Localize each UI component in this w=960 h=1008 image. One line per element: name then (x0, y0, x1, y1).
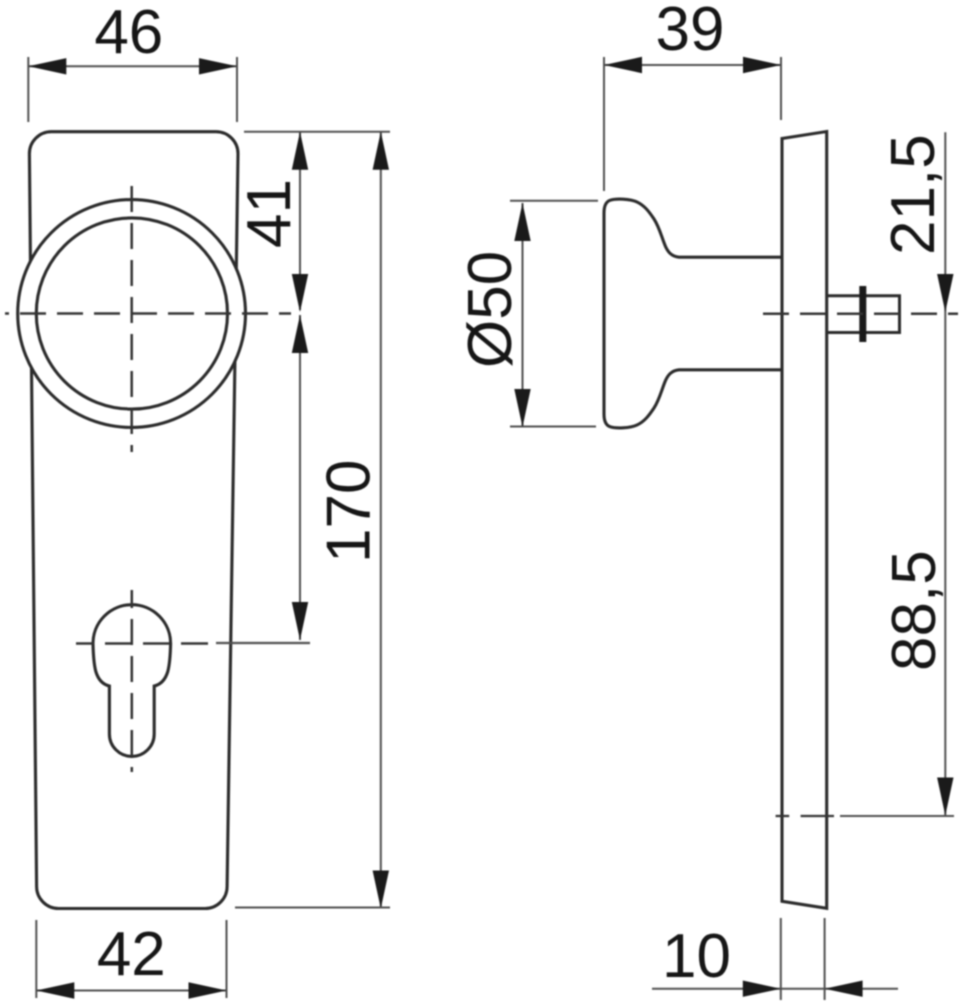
svg-text:41: 41 (235, 179, 304, 248)
svg-text:21,5: 21,5 (879, 134, 948, 255)
svg-text:39: 39 (656, 0, 725, 64)
svg-text:Ø50: Ø50 (456, 251, 525, 368)
svg-text:10: 10 (662, 922, 731, 991)
svg-text:46: 46 (94, 0, 163, 67)
svg-text:88,5: 88,5 (880, 550, 949, 671)
svg-text:170: 170 (315, 460, 384, 563)
svg-text:42: 42 (97, 920, 166, 989)
